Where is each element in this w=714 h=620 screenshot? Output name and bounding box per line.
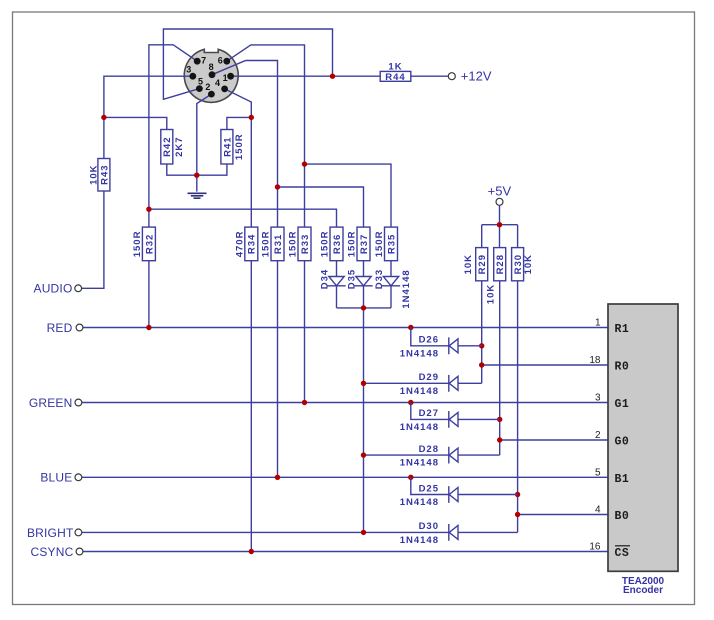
svg-text:D26: D26 <box>419 335 439 346</box>
svg-text:150R: 150R <box>261 231 272 258</box>
terminal AUDIO <box>75 285 82 292</box>
wire: R31 bottom to BLUE row <box>277 261 279 478</box>
terminal RED <box>76 324 83 331</box>
J1 pin 8 <box>209 71 216 78</box>
resistor R30 10K <box>512 248 524 281</box>
junction: R31 column / R37 branch <box>275 184 280 189</box>
svg-text:R37: R37 <box>359 234 370 254</box>
svg-text:R1: R1 <box>615 323 630 336</box>
wire: D27 leads <box>411 403 500 420</box>
wire: R33 bottom to GREEN row <box>304 261 306 403</box>
wire: CSYNC row <box>83 551 608 553</box>
svg-text:AUDIO: AUDIO <box>33 282 72 296</box>
wire: D29 leads <box>364 382 482 384</box>
svg-text:10K: 10K <box>523 254 534 274</box>
wire: pin4 down to R34 <box>225 89 252 227</box>
terminal GREEN <box>75 399 82 406</box>
svg-text:GREEN: GREEN <box>29 396 73 410</box>
terminal BRIGHT <box>75 529 82 536</box>
junction: GREEN / R33 <box>302 400 307 405</box>
junction: +5V rail <box>497 222 502 227</box>
wire: branch to R42 top <box>104 117 167 129</box>
junction: rail / pin7 / R32 <box>146 207 151 212</box>
svg-text:R0: R0 <box>615 361 630 374</box>
wire: R43 bottom to AUDIO terminal <box>82 191 104 288</box>
resistor R29 10K <box>476 248 488 281</box>
svg-text:150R: 150R <box>320 231 331 258</box>
svg-text:R33: R33 <box>300 234 311 254</box>
resistor R34 470R <box>245 227 258 261</box>
resistor R41 150R <box>221 130 233 165</box>
svg-text:D30: D30 <box>419 521 439 532</box>
svg-text:CS: CS <box>615 547 630 560</box>
resistor R35 150R <box>385 227 398 261</box>
svg-text:D34: D34 <box>320 269 331 289</box>
diode D30 1N4148 <box>449 524 458 541</box>
terminal BLUE <box>75 474 82 481</box>
svg-text:4: 4 <box>595 505 601 516</box>
svg-text:1N4148: 1N4148 <box>400 422 439 433</box>
svg-text:B1: B1 <box>615 473 630 486</box>
diode D29 1N4148 <box>449 375 458 392</box>
svg-text:150R: 150R <box>234 133 245 160</box>
svg-text:1N4148: 1N4148 <box>400 458 439 469</box>
wire: branch to R37 top <box>278 187 364 227</box>
svg-text:3: 3 <box>186 65 191 75</box>
svg-text:470R: 470R <box>234 231 245 258</box>
svg-text:D25: D25 <box>419 483 439 494</box>
junction: BRIGHT / bright column <box>361 530 366 535</box>
junction: R30 column / D25 <box>515 492 520 497</box>
junction: R33 column / R35 branch <box>302 161 307 166</box>
wire: R41 top tie to pin4 column <box>227 117 251 129</box>
wire: D25 leads <box>411 477 518 494</box>
J1 pin 2 <box>208 91 215 98</box>
wire: rail to R36 top <box>149 209 337 227</box>
svg-text:BRIGHT: BRIGHT <box>27 526 74 540</box>
svg-text:RED: RED <box>47 321 73 335</box>
svg-text:R34: R34 <box>247 234 258 254</box>
svg-text:150R: 150R <box>347 231 358 258</box>
junction: R30 column / B0 row <box>515 512 520 517</box>
diode D27 1N4148 <box>449 411 458 428</box>
J1 pin 5 <box>196 85 203 92</box>
J1 pin 3 <box>189 73 196 80</box>
wire: D30 right lead <box>458 531 518 533</box>
svg-text:D28: D28 <box>419 444 439 455</box>
svg-text:150R: 150R <box>132 231 143 258</box>
wire: R34 bottom to CSYNC row <box>250 261 252 552</box>
diode D34 1N4148 <box>327 277 345 286</box>
wire: pin7 down to resistor rail and R32 <box>149 45 197 227</box>
svg-text:5: 5 <box>595 467 601 478</box>
J1 pin 1 <box>227 73 234 80</box>
ground <box>188 193 207 198</box>
junction: BLUE / D25 <box>408 475 413 480</box>
resistor R31 150R <box>271 227 284 261</box>
junction: top rail / +12V wire <box>330 74 335 79</box>
svg-text:G1: G1 <box>615 398 630 411</box>
resistor R33 150R <box>298 227 311 261</box>
svg-text:1: 1 <box>595 318 601 329</box>
svg-text:D35: D35 <box>347 269 358 289</box>
J1 pin 7 <box>194 58 201 65</box>
svg-text:1N4148: 1N4148 <box>400 386 439 397</box>
svg-text:2: 2 <box>205 82 210 92</box>
svg-text:R31: R31 <box>273 234 284 254</box>
svg-text:+5V: +5V <box>488 184 512 199</box>
svg-text:10K: 10K <box>88 164 99 184</box>
svg-text:R41: R41 <box>222 136 233 156</box>
svg-text:BLUE: BLUE <box>40 471 72 485</box>
junction: pin4 column / R41 <box>249 115 254 120</box>
wire: R0 row <box>482 364 608 366</box>
svg-text:18: 18 <box>589 355 601 366</box>
svg-text:R28: R28 <box>495 254 506 274</box>
wire: BLUE row <box>82 476 608 478</box>
wire: D28 leads <box>364 454 500 456</box>
resistor R43 10K <box>98 159 110 192</box>
junction: BLUE / R31 <box>275 475 280 480</box>
wire: G0 row <box>500 439 608 441</box>
wire: R32 bottom to RED row <box>148 261 150 328</box>
wire: pin2 down to ground <box>197 94 212 192</box>
junction: GREEN / D27 <box>408 400 413 405</box>
diode D26 1N4148 <box>449 337 458 354</box>
J1 pin 6 <box>223 58 230 65</box>
wire: pin8 down to R31 <box>212 61 278 228</box>
junction: ground node <box>194 173 199 178</box>
svg-text:1N4148: 1N4148 <box>400 535 439 546</box>
wire: R28 column down to D28 row <box>499 281 501 455</box>
svg-text:1K: 1K <box>388 61 402 72</box>
wire: pin3 left and down to R43 <box>104 76 193 158</box>
junction: R28 column / G0 row <box>497 437 502 442</box>
wire: diode bus D34/D33 cathodes <box>337 286 392 308</box>
svg-text:R42: R42 <box>162 136 173 156</box>
resistor R42 2K7 <box>161 130 173 165</box>
wire: pin5 via top rail to +12V junction <box>163 29 332 99</box>
junction: R29 column / R0 row <box>479 362 484 367</box>
svg-text:R35: R35 <box>386 234 397 254</box>
wire: branch to R35 top <box>305 164 392 227</box>
junction: R43 / R42 branch <box>101 115 106 120</box>
svg-text:7: 7 <box>201 56 206 66</box>
svg-text:R36: R36 <box>332 234 343 254</box>
wire: R42 and R41 bottoms to ground rail <box>167 164 227 175</box>
wire: BRIGHT row <box>82 531 449 533</box>
wire: pin6 down to R33 <box>227 45 305 227</box>
diode D35 1N4148 <box>354 277 372 286</box>
svg-text:Encoder: Encoder <box>623 585 663 596</box>
svg-text:1N4148: 1N4148 <box>400 348 439 359</box>
J1 pin 4 <box>221 86 228 93</box>
resistor R37 150R <box>357 227 370 261</box>
svg-text:2: 2 <box>595 430 601 441</box>
svg-text:8: 8 <box>209 62 214 72</box>
wire: R35 bottom to D33 <box>390 261 392 277</box>
wire: D35 cathode down the bright column to BRIGHT row <box>363 286 365 533</box>
IC U1 TEA2000 encoder body <box>608 304 678 571</box>
svg-text:10K: 10K <box>463 254 474 274</box>
svg-text:2K7: 2K7 <box>174 136 185 156</box>
junction: CSYNC / R34 <box>249 549 254 554</box>
resistor R32 150R <box>142 227 155 261</box>
svg-text:B0: B0 <box>615 510 630 523</box>
svg-text:6: 6 <box>218 55 223 65</box>
svg-text:R43: R43 <box>99 164 110 184</box>
svg-text:5: 5 <box>198 77 203 87</box>
svg-text:1N4148: 1N4148 <box>401 269 412 308</box>
svg-text:R32: R32 <box>144 234 155 254</box>
svg-text:3: 3 <box>595 393 601 404</box>
wire: R37 bottom to D35 <box>363 261 365 277</box>
svg-text:16: 16 <box>589 542 601 553</box>
resistor R44 1K <box>380 71 411 81</box>
junction: R28 column / D27 <box>497 417 502 422</box>
wire: B0 row <box>518 514 608 516</box>
svg-text:150R: 150R <box>288 231 299 258</box>
wire: R36 bottom to D34 <box>336 261 338 277</box>
wire: pin1 to R44 to +12V terminal <box>231 75 449 77</box>
svg-text:CSYNC: CSYNC <box>30 545 73 559</box>
diode D25 1N4148 <box>449 486 458 503</box>
svg-text:R29: R29 <box>477 254 488 274</box>
junction: RED / R32 <box>146 325 151 330</box>
junction: diode bus / bright column <box>361 305 366 310</box>
wire: D26 leads <box>411 328 482 346</box>
terminal +12V <box>448 73 455 80</box>
junction: RED / D26 <box>408 325 413 330</box>
svg-text:4: 4 <box>215 78 220 88</box>
wire: R29 column down to D29 row <box>481 281 483 384</box>
wire: RED row <box>83 327 608 329</box>
svg-text:G0: G0 <box>615 436 630 449</box>
svg-text:1: 1 <box>223 73 228 83</box>
diode D33 1N4148 <box>382 277 400 286</box>
svg-text:D29: D29 <box>419 372 439 383</box>
wire: R30 column down to D30 row <box>517 281 519 533</box>
junction: R29 column / D26 <box>479 343 484 348</box>
resistor R36 150R <box>330 227 343 261</box>
svg-text:D33: D33 <box>374 269 385 289</box>
svg-text:R44: R44 <box>385 72 405 83</box>
svg-text:D27: D27 <box>419 408 439 419</box>
svg-text:150R: 150R <box>374 231 385 258</box>
svg-text:1N4148: 1N4148 <box>400 497 439 508</box>
connector J1 8-pin DIN body <box>184 49 238 102</box>
wire: GREEN row <box>82 402 608 404</box>
svg-text:+12V: +12V <box>461 68 492 83</box>
resistor R28 10K <box>494 248 506 281</box>
junction: bright column / D29 <box>361 381 366 386</box>
terminal CSYNC <box>76 548 83 555</box>
junction: bright column / D28 <box>361 452 366 457</box>
diode D28 1N4148 <box>449 447 458 464</box>
wire: +5V rail to R29 R28 R30 tops <box>482 205 518 247</box>
svg-text:10K: 10K <box>486 284 497 304</box>
